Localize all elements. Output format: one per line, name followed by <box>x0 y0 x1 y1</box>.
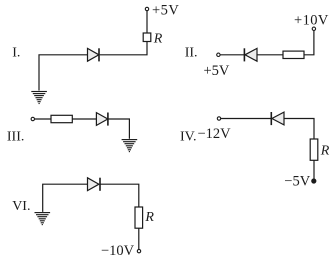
wire terminal to resistor <box>35 118 51 120</box>
resistor R circuit IV <box>310 139 318 160</box>
svg-text:R: R <box>153 31 163 46</box>
svg-text:+10V: +10V <box>294 13 329 29</box>
diode D3 cathode bar <box>107 113 109 126</box>
wire resistor to terminal <box>138 228 140 249</box>
wire resistor down to corner <box>100 42 147 55</box>
diode D1 triangle <box>88 48 99 61</box>
resistor R circuit I <box>143 33 151 42</box>
ground circuit III <box>122 140 138 152</box>
svg-text:III.: III. <box>7 129 25 144</box>
diode D6 cathode bar <box>99 178 101 191</box>
ground circuit I <box>31 92 47 104</box>
diode D2 triangle <box>245 48 257 61</box>
svg-text:R: R <box>144 210 154 225</box>
svg-text:IV.: IV. <box>180 130 196 145</box>
resistor circuit II <box>283 51 304 58</box>
wire terminal to resistor <box>146 11 148 33</box>
wire terminal to diode <box>221 118 271 120</box>
wire resistor to corner up <box>304 31 314 55</box>
terminal input circuit III <box>31 117 34 120</box>
resistor R circuit VI <box>135 207 143 228</box>
terminal dot -5V <box>311 178 316 183</box>
wire diode to corner down <box>108 119 130 139</box>
wire diode to corner <box>284 119 314 140</box>
diode D1 cathode bar <box>98 48 100 61</box>
wire left corner circuit VI <box>43 184 88 212</box>
svg-text:−5V: −5V <box>284 174 310 190</box>
terminal +10V circuit II <box>312 27 315 30</box>
svg-text:R: R <box>320 144 330 159</box>
diode D6 triangle <box>88 178 99 191</box>
wire diode to left corner <box>39 55 88 91</box>
svg-text:−10V: −10V <box>101 243 135 259</box>
terminal +5V circuit II <box>217 53 220 56</box>
wire resistor to -5V dot <box>313 160 315 180</box>
svg-text:VI.: VI. <box>12 199 30 214</box>
diode D4 cathode bar <box>270 112 272 125</box>
diode D4 triangle <box>272 112 284 125</box>
svg-text:+5V: +5V <box>152 3 179 19</box>
wire resistor to diode <box>72 118 96 120</box>
terminal -10V circuit VI <box>137 249 140 252</box>
wire diode to right corner <box>100 184 139 207</box>
diode D3 triangle <box>96 113 107 126</box>
ground circuit VI <box>35 213 51 225</box>
svg-text:II.: II. <box>185 46 198 61</box>
diode D2 cathode bar <box>243 48 245 61</box>
wire terminal to diode <box>220 54 244 56</box>
svg-text:+5V: +5V <box>204 63 230 79</box>
svg-text:I.: I. <box>12 46 20 61</box>
svg-text:−12V: −12V <box>198 126 232 142</box>
terminal +5V circuit I <box>145 7 148 10</box>
wire diode to resistor <box>257 54 283 56</box>
resistor circuit III <box>51 115 72 122</box>
terminal -12V circuit IV <box>217 117 220 120</box>
